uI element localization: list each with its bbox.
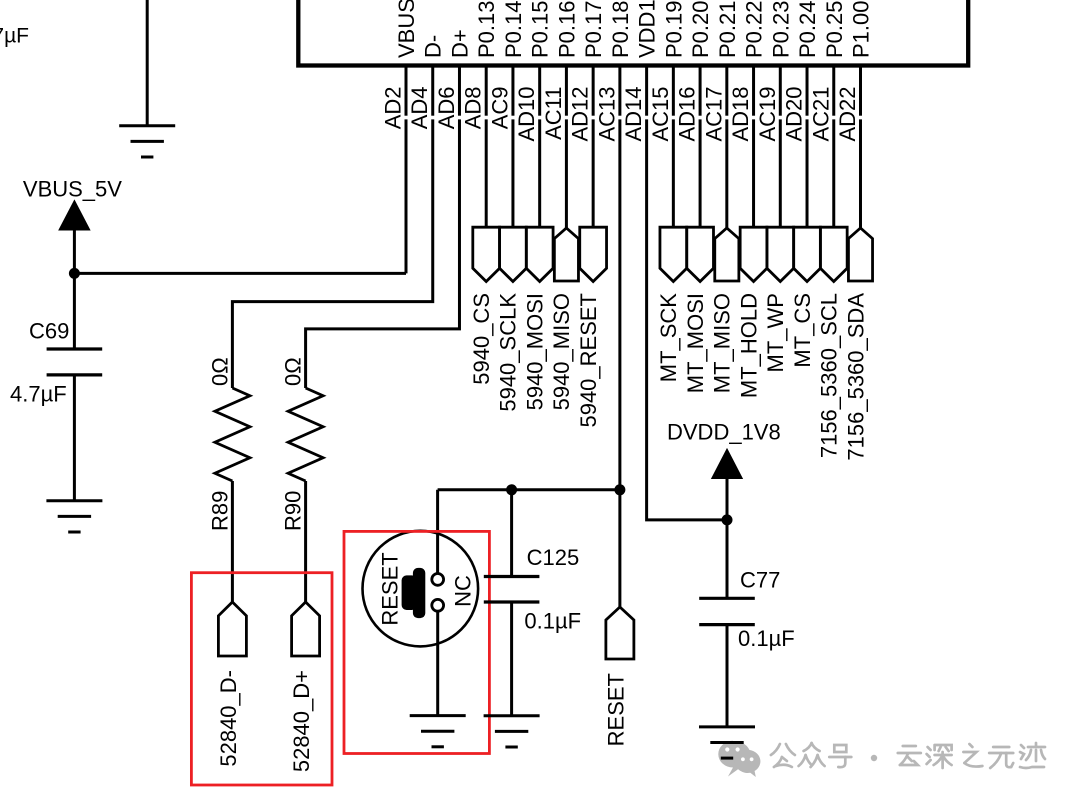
port 5940_MOSI — [522, 227, 553, 410]
pin D+ (pad AD6) of U1 — [434, 29, 473, 129]
svg-text:AD8: AD8 — [461, 87, 486, 130]
resistor R89 0R — [207, 357, 250, 531]
switch SW1 contact top — [432, 574, 444, 586]
capacitor C69 — [10, 319, 102, 407]
wire P0.13 to port — [485, 119, 488, 227]
svg-text:AD20: AD20 — [782, 87, 807, 142]
port 5940_MISO — [549, 228, 578, 410]
svg-text:C69: C69 — [29, 319, 69, 344]
pin P0.20 (pad AD16) of U1 — [675, 1, 714, 142]
red annotation box around USB ports — [191, 573, 332, 785]
svg-text:MT_WP: MT_WP — [763, 293, 788, 372]
wire junction to C77 — [726, 520, 729, 598]
svg-text:AC9: AC9 — [487, 87, 512, 130]
svg-text:AD22: AD22 — [835, 87, 860, 142]
svg-text:P0.24: P0.24 — [795, 1, 820, 59]
pin VDD1 (pad AD14) of U1 — [621, 0, 660, 142]
port MT_MOSI — [683, 227, 714, 393]
pin P0.24 (pad AD20) of U1 — [782, 1, 821, 142]
red annotation box around reset button — [344, 531, 489, 753]
pin P0.18 (pad AC13) of U1 — [594, 1, 633, 142]
wire P0.22 to port — [752, 119, 755, 227]
port 7156_5360_SDA — [843, 228, 872, 461]
svg-text:RESET: RESET — [603, 673, 628, 746]
port 5940_CS — [469, 227, 500, 385]
wire C77 to ground — [726, 625, 729, 727]
svg-text:P0.16: P0.16 — [554, 1, 579, 59]
svg-text:AD18: AD18 — [728, 87, 753, 142]
svg-text:P0.15: P0.15 — [528, 1, 553, 59]
wire P0.19 to port — [672, 119, 675, 227]
port MT_WP — [763, 227, 794, 372]
svg-text:AC13: AC13 — [594, 87, 619, 142]
port MT_CS — [790, 227, 821, 367]
watermark wechat logo and text — [718, 741, 1045, 777]
wire P0.21 to port — [725, 119, 728, 228]
wire D+ to R90 — [306, 119, 460, 388]
svg-text:P0.14: P0.14 — [501, 1, 526, 59]
switch SW1 contact bottom — [432, 599, 444, 611]
wire reset node horizontal — [438, 488, 620, 491]
svg-text:MT_HOLD: MT_HOLD — [736, 293, 761, 398]
pin P0.25 (pad AC21) of U1 — [808, 1, 847, 142]
svg-text:AC17: AC17 — [701, 87, 726, 142]
svg-text:MT_MISO: MT_MISO — [710, 293, 735, 393]
junction VBUS node — [69, 268, 80, 279]
svg-text:VDD1: VDD1 — [635, 0, 660, 58]
pin VBUS (pad AD2) of U1 — [381, 0, 420, 129]
pin P0.16 (pad AC11) of U1 — [541, 1, 580, 140]
ground (C77) — [699, 727, 755, 758]
power flag VBUS_5V — [23, 177, 122, 274]
wire P0.17 to port — [592, 119, 595, 227]
svg-text:P0.21: P0.21 — [715, 1, 740, 59]
wire P1.00 to port — [859, 119, 862, 228]
ground (C69) — [46, 501, 102, 532]
svg-text:5940_RESET: 5940_RESET — [576, 293, 601, 428]
svg-text:0Ω: 0Ω — [281, 357, 306, 386]
port RESET — [603, 607, 634, 746]
switch SW1 plunger — [402, 568, 426, 618]
pin P0.21 (pad AC17) of U1 — [701, 1, 740, 142]
port MT_HOLD — [736, 227, 767, 398]
wire P0.14 to port — [511, 119, 514, 227]
svg-text:P0.22: P0.22 — [742, 1, 767, 59]
pin P0.14 (pad AC9) of U1 — [487, 1, 526, 130]
IC U1 body (nRF52840, top cut off) — [298, 0, 968, 66]
pin P0.19 (pad AC15) of U1 — [648, 1, 687, 142]
svg-text:AD4: AD4 — [407, 87, 432, 130]
svg-text:4.7µF: 4.7µF — [0, 25, 29, 48]
pin P0.15 (pad AD10) of U1 — [514, 1, 553, 142]
pin P0.17 (pad AD12) of U1 — [568, 1, 607, 142]
wire VDD1 down and right — [647, 119, 727, 520]
svg-text:4.7µF: 4.7µF — [10, 382, 67, 407]
wire P0.16 to port — [565, 119, 568, 228]
junction RESET node right — [614, 484, 625, 495]
svg-text:0.1µF: 0.1µF — [524, 609, 581, 634]
svg-text:NC: NC — [451, 575, 476, 607]
wire D- to R89 — [232, 119, 432, 388]
svg-text:AC21: AC21 — [808, 87, 833, 142]
pin P1.00 (pad AD22) of U1 — [835, 1, 874, 142]
svg-text:AD6: AD6 — [434, 87, 459, 130]
svg-text:DVDD_1V8: DVDD_1V8 — [667, 420, 781, 445]
wire P0.24 to port — [806, 119, 809, 227]
svg-text:P0.13: P0.13 — [474, 1, 499, 59]
svg-text:AC15: AC15 — [648, 87, 673, 142]
resistor R90 0R — [281, 357, 324, 531]
svg-text:AD12: AD12 — [568, 87, 593, 142]
wire P0.25 to port — [832, 119, 835, 227]
svg-text:R89: R89 — [207, 491, 232, 531]
svg-text:RESET: RESET — [378, 552, 403, 625]
wire P0.18 down to RESET port — [618, 119, 621, 608]
junction C125 node — [506, 484, 517, 495]
svg-text:AD14: AD14 — [621, 87, 646, 142]
port 52840_D- — [216, 602, 247, 767]
svg-text:P0.19: P0.19 — [661, 1, 686, 59]
svg-text:MT_CS: MT_CS — [790, 293, 815, 368]
wire R89 to tag — [231, 481, 234, 603]
svg-text:AD2: AD2 — [381, 87, 406, 130]
wire down to switch SW1 — [436, 490, 439, 574]
wire P0.15 to port — [538, 119, 541, 227]
pin P0.23 (pad AC19) of U1 — [755, 1, 794, 142]
svg-text:AC19: AC19 — [755, 87, 780, 142]
svg-text:D+: D+ — [447, 29, 472, 58]
svg-text:VBUS_5V: VBUS_5V — [23, 177, 122, 202]
svg-text:P0.25: P0.25 — [822, 1, 847, 59]
port MT_MISO — [710, 228, 739, 393]
capacitor C77 — [699, 568, 795, 651]
power flag DVDD_1V8 — [667, 420, 781, 520]
svg-text:P0.17: P0.17 — [581, 1, 606, 59]
wire VBUS pin vertical — [405, 119, 408, 273]
svg-text:52840_D-: 52840_D- — [216, 670, 241, 767]
svg-text:5940_CS: 5940_CS — [469, 293, 494, 385]
svg-text:5940_SCLK: 5940_SCLK — [496, 293, 521, 412]
ground (SW1) — [410, 716, 466, 747]
svg-text:C77: C77 — [740, 568, 780, 593]
svg-text:AD16: AD16 — [675, 87, 700, 142]
svg-text:0Ω: 0Ω — [207, 357, 232, 386]
svg-text:52840_D+: 52840_D+ — [289, 670, 314, 772]
svg-text:MT_SCK: MT_SCK — [656, 293, 681, 383]
switch SW1 reset button circle — [363, 531, 479, 647]
svg-text:R90: R90 — [281, 491, 306, 531]
wire C125 to ground — [510, 602, 513, 716]
junction DVDD node — [722, 514, 733, 525]
pin D- (pad AD4) of U1 — [407, 35, 446, 130]
wire node to C125 — [510, 490, 513, 577]
port MT_SCK — [656, 227, 687, 382]
svg-text:P1.00: P1.00 — [848, 1, 873, 59]
wire to top-left ground — [146, 0, 149, 126]
svg-text:5940_MISO: 5940_MISO — [549, 293, 574, 410]
wire P0.23 to port — [779, 119, 782, 227]
wire R90 to tag — [304, 481, 307, 603]
wire P0.20 to port — [699, 119, 702, 227]
port 52840_D+ — [289, 602, 320, 772]
wire VBUS rail horizontal — [74, 272, 406, 275]
svg-text:P0.18: P0.18 — [608, 1, 633, 59]
wire junction to C69 — [73, 273, 76, 349]
svg-text:7156_5360_SDA: 7156_5360_SDA — [843, 293, 868, 461]
svg-text:P0.23: P0.23 — [768, 1, 793, 59]
wire SW1 to ground — [436, 611, 439, 715]
svg-text:5940_MOSI: 5940_MOSI — [522, 293, 547, 410]
svg-text:D-: D- — [421, 35, 446, 58]
svg-text:7156_5360_SCL: 7156_5360_SCL — [817, 293, 842, 458]
wire C69 to ground — [73, 375, 76, 501]
svg-text:AD10: AD10 — [514, 87, 539, 142]
ground (C125) — [484, 716, 540, 747]
svg-text:P0.20: P0.20 — [688, 1, 713, 59]
port 7156_5360_SCL — [817, 227, 848, 458]
capacitor C125 — [484, 545, 581, 634]
svg-text:MT_MOSI: MT_MOSI — [683, 293, 708, 393]
svg-text:0.1µF: 0.1µF — [738, 626, 795, 651]
svg-text:C125: C125 — [527, 545, 580, 570]
svg-text:AC11: AC11 — [541, 87, 566, 140]
port 5940_SCLK — [496, 227, 527, 411]
ground (top-left) — [119, 126, 175, 157]
pin P0.22 (pad AD18) of U1 — [728, 1, 767, 142]
pin P0.13 (pad AD8) of U1 — [461, 1, 500, 130]
port 5940_RESET — [576, 227, 607, 427]
svg-text:VBUS: VBUS — [394, 0, 419, 58]
